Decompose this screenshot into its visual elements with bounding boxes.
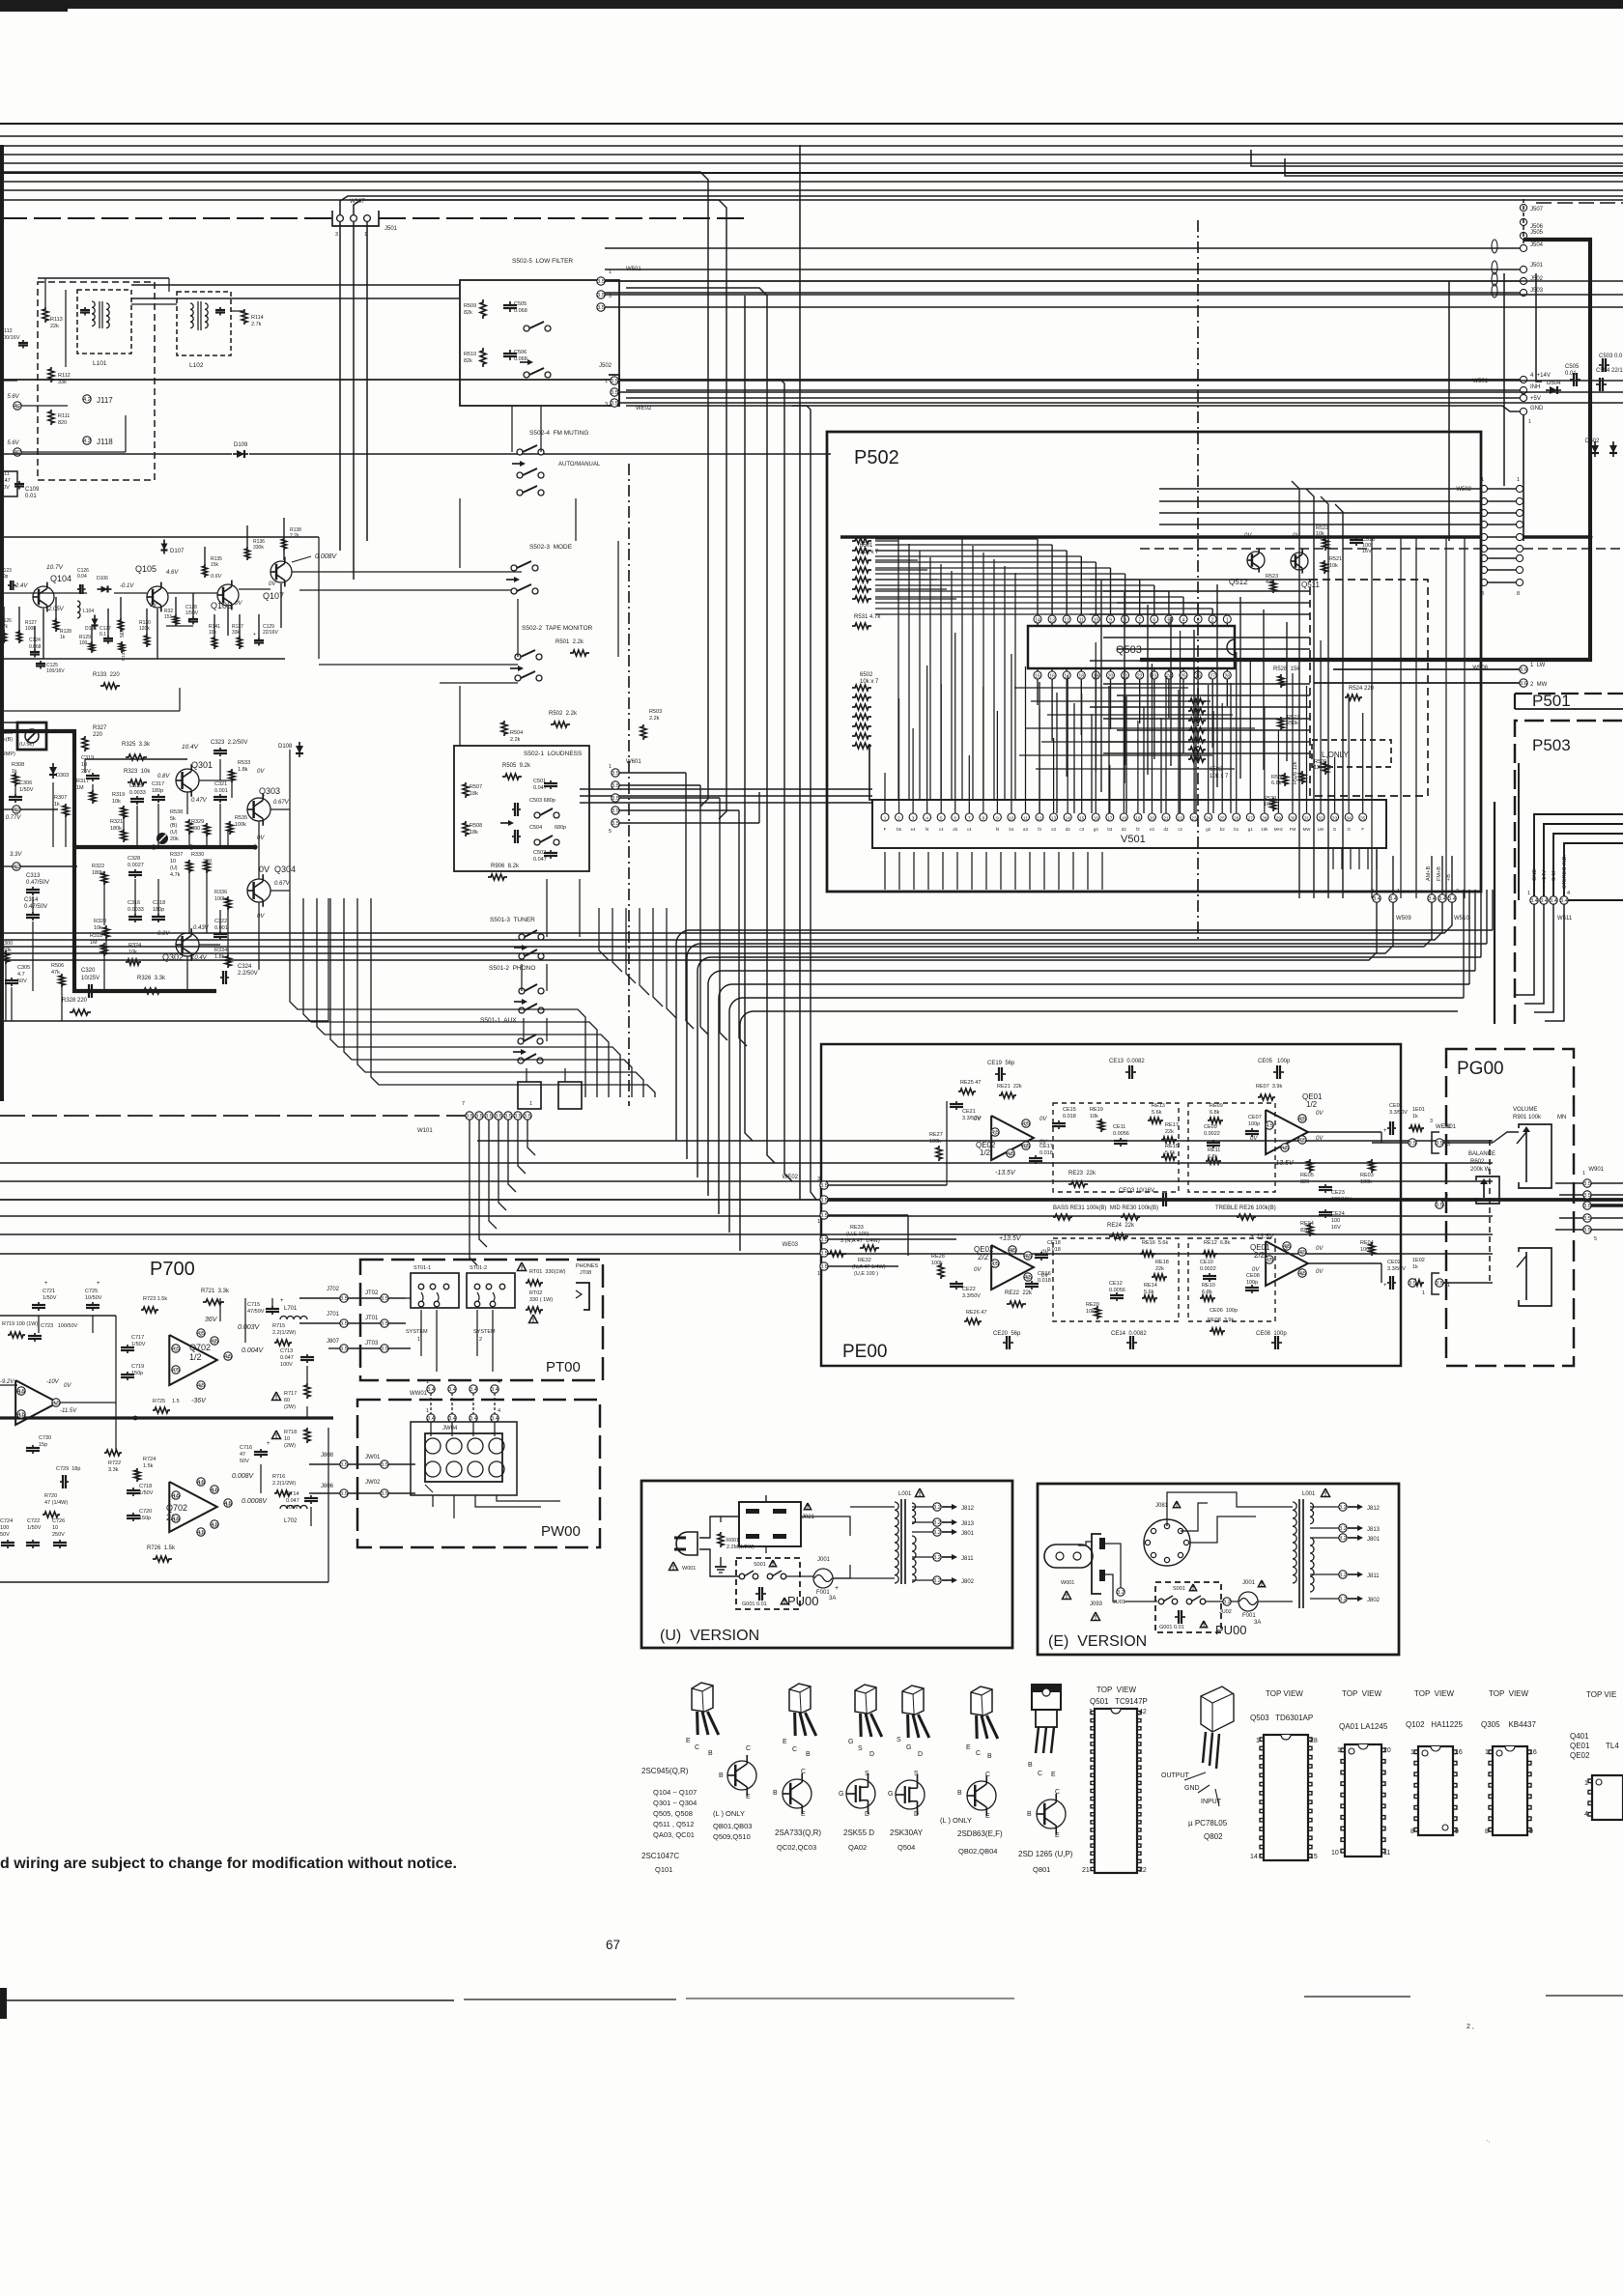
svg-text:10/25V: 10/25V bbox=[81, 976, 100, 981]
svg-text:RE17: RE17 bbox=[1165, 1122, 1179, 1128]
svg-text:2: 2 bbox=[1211, 618, 1214, 624]
svg-text:P502: P502 bbox=[854, 447, 899, 468]
svg-text:0V: 0V bbox=[257, 836, 265, 841]
svg-text:R506: R506 bbox=[51, 963, 64, 969]
svg-text:2: 2 bbox=[1025, 1122, 1028, 1128]
svg-text:180p: 180p bbox=[152, 788, 163, 794]
svg-text:6502: 6502 bbox=[860, 672, 873, 678]
svg-text:C505: C505 bbox=[1565, 364, 1580, 370]
svg-text:+: + bbox=[44, 1281, 48, 1287]
node 6 bbox=[13, 863, 20, 870]
wire P502 bottom exits bbox=[884, 852, 886, 890]
svg-text:R602: R602 bbox=[1470, 1159, 1485, 1165]
switch S502-4c bbox=[517, 490, 523, 496]
wire PG00 dashed center bbox=[1489, 1140, 1491, 1285]
svg-text:-36V: -36V bbox=[191, 1398, 207, 1404]
svg-text:RE15: RE15 bbox=[1165, 1144, 1179, 1149]
svg-text:2.7k: 2.7k bbox=[251, 322, 262, 327]
diode D105 bbox=[94, 615, 96, 630]
svg-text:R325 3.3k: R325 3.3k bbox=[122, 742, 151, 748]
svg-text:3.5: 3.5 bbox=[381, 1491, 388, 1497]
svg-text:E: E bbox=[746, 1794, 751, 1800]
svg-text:3.2: 3.2 bbox=[1117, 1590, 1125, 1596]
svg-text:J811: J811 bbox=[961, 1556, 974, 1562]
svg-text:10.4V: 10.4V bbox=[182, 744, 199, 751]
block PT00 bbox=[360, 1260, 603, 1380]
svg-text:+13.5V: +13.5V bbox=[999, 1235, 1022, 1242]
svg-text:4: 4 bbox=[1567, 891, 1570, 896]
svg-text:100: 100 bbox=[0, 1525, 9, 1531]
svg-text:3.5: 3.5 bbox=[340, 1296, 348, 1302]
svg-text:C726: C726 bbox=[52, 1518, 65, 1524]
svg-text:0V: 0V bbox=[1316, 1136, 1324, 1142]
AC plug W001 U bbox=[676, 1532, 698, 1555]
transistor package 2SK55 TO-92 bbox=[855, 1685, 876, 1714]
svg-text:G: G bbox=[848, 1739, 853, 1745]
svg-text:0V: 0V bbox=[1039, 1117, 1047, 1122]
svg-text:QE01: QE01 bbox=[1570, 1742, 1590, 1750]
wire dashed bus bbox=[0, 217, 332, 219]
svg-text:C: C bbox=[746, 1745, 751, 1752]
svg-text:R11: R11 bbox=[0, 471, 10, 477]
svg-text:2SC945(Q,R): 2SC945(Q,R) bbox=[641, 1767, 689, 1775]
svg-text:21: 21 bbox=[1082, 1867, 1090, 1874]
svg-text:220: 220 bbox=[93, 732, 103, 738]
wire J702 links bbox=[299, 1297, 340, 1299]
svg-text:J801: J801 bbox=[1367, 1537, 1381, 1543]
svg-text:25: 25 bbox=[1220, 816, 1226, 821]
svg-text:3.5: 3.5 bbox=[475, 1114, 483, 1120]
svg-text:1/2: 1/2 bbox=[1306, 1100, 1318, 1109]
svg-text:820: 820 bbox=[1300, 1179, 1309, 1185]
svg-text:3.5: 3.5 bbox=[1409, 1281, 1416, 1287]
svg-text:C504: C504 bbox=[529, 825, 542, 831]
svg-text:AM+B: AM+B bbox=[1426, 866, 1432, 881]
transistor symbol 2SK30A FET bbox=[896, 1780, 925, 1809]
svg-text:JW01: JW01 bbox=[365, 1455, 381, 1460]
svg-text:17: 17 bbox=[1107, 816, 1113, 821]
svg-text:3.4: 3.4 bbox=[1550, 898, 1557, 904]
svg-text:0.47V: 0.47V bbox=[191, 798, 208, 804]
svg-text:RE03: RE03 bbox=[1360, 1173, 1374, 1178]
svg-text:!: ! bbox=[772, 1561, 774, 1568]
connector JU01 bbox=[1117, 1588, 1125, 1596]
wire left vertical bundle bbox=[0, 172, 708, 807]
wire W101 drops bbox=[470, 1120, 477, 1265]
svg-text:V 5.6V: V 5.6V bbox=[0, 440, 20, 446]
svg-text:1: 1 bbox=[1584, 1780, 1588, 1787]
svg-text:RE11: RE11 bbox=[1208, 1148, 1220, 1153]
svg-text:!: ! bbox=[1261, 1581, 1263, 1588]
svg-text:0.001: 0.001 bbox=[214, 788, 228, 794]
svg-text:0.47: 0.47 bbox=[0, 478, 11, 484]
wire thick mid bus bbox=[823, 1198, 1623, 1202]
svg-text:8: 8 bbox=[1485, 1828, 1489, 1835]
switch S502-3a bbox=[511, 565, 517, 571]
svg-text:G: G bbox=[1347, 827, 1351, 832]
svg-text:!: ! bbox=[783, 1599, 785, 1605]
svg-text:250k: 250k bbox=[1287, 721, 1298, 726]
svg-text:W502: W502 bbox=[1456, 487, 1471, 493]
svg-text:RE05: RE05 bbox=[1300, 1173, 1314, 1178]
svg-text:56k: 56k bbox=[120, 629, 126, 638]
svg-text:+: + bbox=[835, 1585, 839, 1592]
svg-text:3.5: 3.5 bbox=[597, 293, 605, 298]
svg-text:J813: J813 bbox=[1367, 1527, 1381, 1533]
svg-text:CE23: CE23 bbox=[1331, 1190, 1345, 1196]
connector J503 bbox=[1520, 289, 1526, 296]
svg-text:P700: P700 bbox=[150, 1259, 195, 1280]
wire W601 feeders bbox=[619, 772, 686, 774]
svg-text:15: 15 bbox=[198, 1481, 204, 1486]
svg-text:!: ! bbox=[521, 1265, 523, 1272]
svg-text:3.5: 3.5 bbox=[1583, 1181, 1591, 1187]
svg-text:25: 25 bbox=[1181, 674, 1186, 680]
svg-text:QB01,QB03: QB01,QB03 bbox=[713, 1822, 752, 1830]
svg-text:3.5: 3.5 bbox=[1436, 1141, 1443, 1147]
svg-text:0.8V: 0.8V bbox=[157, 774, 170, 780]
svg-text:14: 14 bbox=[1066, 816, 1071, 821]
svg-text:4: 4 bbox=[925, 816, 928, 821]
svg-text:3.5: 3.5 bbox=[340, 1462, 348, 1468]
svg-text:7: 7 bbox=[175, 1369, 178, 1375]
svg-text:3.2: 3.2 bbox=[1339, 1526, 1347, 1532]
svg-text:11: 11 bbox=[19, 1413, 24, 1418]
svg-text:13: 13 bbox=[1051, 816, 1057, 821]
svg-text:27: 27 bbox=[1210, 674, 1215, 680]
svg-text:3.5: 3.5 bbox=[1583, 1216, 1591, 1222]
svg-text:Q102 HA11225: Q102 HA11225 bbox=[1406, 1720, 1464, 1729]
dashed feedback box upper bbox=[1053, 1103, 1179, 1192]
svg-text:20: 20 bbox=[1150, 816, 1155, 821]
svg-text:0.67V: 0.67V bbox=[274, 881, 291, 887]
op-amp QE02 2/2 bbox=[991, 1245, 1034, 1290]
svg-text:RT02: RT02 bbox=[529, 1290, 542, 1296]
svg-text:QB02,QB04: QB02,QB04 bbox=[958, 1847, 997, 1856]
svg-text:1: 1 bbox=[1447, 1283, 1450, 1289]
svg-text:RE07 3.9k: RE07 3.9k bbox=[1256, 1084, 1282, 1090]
svg-text:16: 16 bbox=[1049, 674, 1055, 680]
wire top bus step bbox=[1251, 150, 1623, 166]
svg-text:67: 67 bbox=[606, 1938, 620, 1952]
svg-text:8: 8 bbox=[982, 816, 985, 821]
svg-text:R321: R321 bbox=[110, 819, 123, 825]
svg-text:2SK55 D: 2SK55 D bbox=[843, 1828, 874, 1837]
svg-text:J806: J806 bbox=[321, 1484, 334, 1489]
svg-text:(RMP): (RMP) bbox=[0, 751, 15, 757]
svg-text:CE06 100p: CE06 100p bbox=[1210, 1308, 1238, 1314]
svg-text:F: F bbox=[1361, 827, 1364, 832]
svg-text:2SA733(Q,R): 2SA733(Q,R) bbox=[775, 1828, 821, 1837]
svg-text:RE24 22k: RE24 22k bbox=[1107, 1223, 1135, 1229]
svg-text:0.47/50V: 0.47/50V bbox=[24, 904, 47, 910]
switch S502-4a bbox=[517, 449, 523, 455]
switch S502-2b bbox=[515, 675, 521, 681]
svg-text:D106: D106 bbox=[97, 576, 108, 581]
svg-text:R716: R716 bbox=[272, 1474, 285, 1480]
svg-text:-13.5V: -13.5V bbox=[1273, 1160, 1295, 1167]
svg-text:1.5: 1.5 bbox=[172, 1399, 180, 1404]
svg-text:0.0022: 0.0022 bbox=[1200, 1266, 1216, 1272]
svg-text:B: B bbox=[773, 1790, 778, 1797]
svg-text:2SC1047C: 2SC1047C bbox=[641, 1852, 679, 1860]
bottom faint rule bbox=[0, 1999, 454, 2001]
svg-text:3.5: 3.5 bbox=[820, 1237, 828, 1243]
svg-text:33k: 33k bbox=[232, 630, 241, 636]
svg-text:6: 6 bbox=[954, 816, 956, 821]
switch S502-1a bbox=[534, 812, 540, 818]
svg-text:1k: 1k bbox=[54, 802, 60, 808]
svg-text:C315: C315 bbox=[129, 783, 142, 789]
svg-text:WE02: WE02 bbox=[783, 1175, 799, 1180]
svg-text:3A: 3A bbox=[829, 1596, 836, 1602]
switch S001 E dashed box bbox=[1155, 1582, 1221, 1632]
wire P503 divider verticals bbox=[1494, 802, 1495, 1024]
connector J506 bbox=[1520, 218, 1526, 225]
svg-text:10k: 10k bbox=[1329, 563, 1338, 569]
svg-text:L001: L001 bbox=[898, 1491, 912, 1497]
svg-text:12: 12 bbox=[212, 1523, 217, 1528]
svg-text:0V: 0V bbox=[1244, 533, 1252, 539]
svg-text:B: B bbox=[806, 1751, 811, 1758]
svg-text:(E) VERSION: (E) VERSION bbox=[1048, 1633, 1147, 1650]
svg-text:15: 15 bbox=[1310, 1854, 1318, 1860]
svg-text:47/50V: 47/50V bbox=[247, 1309, 265, 1315]
wire PT00 internals bbox=[420, 1310, 422, 1356]
svg-text:R326 3.3k: R326 3.3k bbox=[137, 976, 166, 981]
svg-text:R535: R535 bbox=[235, 815, 247, 821]
svg-text:100: 100 bbox=[1331, 1218, 1340, 1224]
svg-text:PE00: PE00 bbox=[842, 1342, 887, 1362]
svg-text:C319: C319 bbox=[81, 755, 94, 761]
svg-text:2.2(1/2W): 2.2(1/2W) bbox=[272, 1481, 296, 1487]
svg-text:R322: R322 bbox=[92, 864, 104, 869]
transistor package 2SD1265 TO-220 bbox=[1032, 1685, 1061, 1692]
svg-text:G001 0.01: G001 0.01 bbox=[1159, 1625, 1184, 1630]
svg-text:C: C bbox=[695, 1744, 699, 1751]
transistor symbol 2SK55 FET bbox=[846, 1779, 875, 1808]
svg-text:+B: +B bbox=[1446, 874, 1452, 881]
svg-text:Q503 TD6301AP: Q503 TD6301AP bbox=[1250, 1714, 1313, 1722]
connector J504 bbox=[1520, 244, 1526, 251]
svg-text:R330: R330 bbox=[191, 852, 204, 858]
transistor Q106 bbox=[217, 584, 239, 606]
svg-text:RE16 5.6k: RE16 5.6k bbox=[1142, 1240, 1168, 1246]
svg-text:FM: FM bbox=[1290, 827, 1296, 832]
svg-text:W511: W511 bbox=[1557, 916, 1573, 921]
svg-text:C328: C328 bbox=[128, 856, 140, 862]
svg-text:R723 1.5k: R723 1.5k bbox=[143, 1296, 167, 1302]
svg-text:0.8V: 0.8V bbox=[157, 931, 170, 937]
svg-text:16: 16 bbox=[173, 1494, 179, 1499]
switch ST01-2 bbox=[467, 1273, 515, 1308]
wire IF left rails bbox=[21, 399, 83, 406]
ground R001 bbox=[720, 1557, 722, 1567]
svg-text:JT01: JT01 bbox=[365, 1316, 379, 1321]
svg-text:Q504: Q504 bbox=[897, 1843, 915, 1852]
svg-text:!: ! bbox=[672, 1565, 674, 1572]
svg-text:JW04: JW04 bbox=[442, 1426, 458, 1431]
svg-text:L104: L104 bbox=[83, 609, 94, 614]
switch S501-3b bbox=[519, 953, 525, 959]
transistor Q511 bbox=[1291, 553, 1308, 570]
svg-text:R329: R329 bbox=[191, 819, 204, 825]
svg-text:42: 42 bbox=[1139, 1709, 1147, 1715]
svg-text:3.4: 3.4 bbox=[1438, 896, 1446, 902]
svg-text:G001 0.01: G001 0.01 bbox=[742, 1602, 767, 1607]
svg-text:82k: 82k bbox=[464, 310, 472, 316]
svg-text:100/16V: 100/16V bbox=[1331, 1197, 1352, 1203]
display tube V501 bbox=[869, 744, 872, 800]
switch S001 U dashed box bbox=[736, 1558, 800, 1609]
svg-text:0.018: 0.018 bbox=[1038, 1278, 1051, 1284]
svg-text:1.5k: 1.5k bbox=[143, 1463, 154, 1469]
svg-text:3.5: 3.5 bbox=[381, 1296, 388, 1302]
svg-text:0V: 0V bbox=[1316, 1246, 1324, 1252]
svg-text:3.5: 3.5 bbox=[820, 1213, 828, 1219]
svg-text:B: B bbox=[957, 1790, 962, 1797]
svg-text:b3: b3 bbox=[1107, 827, 1112, 832]
svg-text:7: 7 bbox=[1138, 618, 1141, 624]
svg-text:Q301 ~ Q304: Q301 ~ Q304 bbox=[653, 1799, 697, 1807]
svg-text:3.2: 3.2 bbox=[1339, 1597, 1347, 1602]
svg-text:Q509,Q510: Q509,Q510 bbox=[713, 1832, 751, 1841]
block P503 bbox=[1515, 721, 1623, 1024]
capacitor C115 bbox=[219, 307, 221, 310]
svg-text:R719 100 (1W): R719 100 (1W) bbox=[2, 1321, 38, 1327]
svg-text:R722: R722 bbox=[108, 1460, 121, 1466]
svg-text:3.5: 3.5 bbox=[597, 305, 605, 311]
transistor package uPC78L05 bbox=[1201, 1687, 1234, 1732]
svg-text:Q801: Q801 bbox=[1033, 1865, 1050, 1874]
svg-text:22k: 22k bbox=[1155, 1266, 1164, 1272]
svg-text:1M: 1M bbox=[90, 940, 98, 946]
svg-text:J501: J501 bbox=[1530, 263, 1544, 269]
svg-text:TOP VIEW: TOP VIEW bbox=[1266, 1689, 1303, 1698]
svg-text:(2W): (2W) bbox=[284, 1443, 296, 1449]
svg-text:CE15: CE15 bbox=[1063, 1107, 1076, 1113]
svg-text:2.2/50V: 2.2/50V bbox=[238, 971, 258, 977]
svg-text:10k x 7: 10k x 7 bbox=[1210, 774, 1229, 780]
svg-text:AUTO/MANUAL: AUTO/MANUAL bbox=[558, 462, 601, 468]
svg-text:3: 3 bbox=[912, 816, 915, 821]
wire tuner verticals bbox=[3, 607, 5, 639]
svg-text:+14V: +14V bbox=[1542, 870, 1548, 883]
diode D106 bbox=[98, 588, 112, 590]
transistor package 2SC945 TO-92 bbox=[692, 1683, 713, 1712]
svg-text:D: D bbox=[914, 1811, 919, 1818]
svg-text:d2: d2 bbox=[1164, 827, 1169, 832]
svg-text:3.6: 3.6 bbox=[1520, 667, 1527, 673]
connector J505 bbox=[1520, 232, 1526, 239]
svg-text:W509: W509 bbox=[1396, 916, 1411, 921]
svg-text:b2: b2 bbox=[1220, 827, 1225, 832]
svg-text:W510: W510 bbox=[1454, 916, 1469, 921]
svg-text:1/50V: 1/50V bbox=[27, 1525, 42, 1531]
svg-text:CE10: CE10 bbox=[1200, 1260, 1213, 1265]
svg-text:BASS RE31 100k(B) MID RE30 10: BASS RE31 100k(B) MID RE30 100k(B) bbox=[1053, 1205, 1158, 1211]
svg-text:R509: R509 bbox=[464, 303, 476, 309]
svg-text:22/16V: 22/16V bbox=[263, 630, 279, 636]
voltage selector J021 bbox=[739, 1502, 801, 1546]
svg-text:47 (1/4W): 47 (1/4W) bbox=[44, 1500, 68, 1506]
svg-text:0.6V: 0.6V bbox=[211, 574, 223, 580]
svg-text:D108: D108 bbox=[278, 744, 293, 750]
svg-text:6.8k: 6.8k bbox=[1210, 1110, 1220, 1116]
svg-text:1k: 1k bbox=[60, 635, 66, 640]
svg-text:JU02: JU02 bbox=[1219, 1609, 1232, 1615]
svg-text:R336: R336 bbox=[214, 890, 227, 895]
svg-text:4: 4 bbox=[1584, 1811, 1588, 1818]
svg-text:4: 4 bbox=[498, 1408, 500, 1414]
svg-text:C313: C313 bbox=[26, 873, 41, 879]
svg-text:c4: c4 bbox=[939, 827, 944, 832]
svg-text:2SK30AY: 2SK30AY bbox=[890, 1828, 924, 1837]
svg-text:R501 2.2k: R501 2.2k bbox=[555, 639, 584, 645]
svg-text:20k: 20k bbox=[170, 836, 179, 842]
svg-text:1: 1 bbox=[426, 1408, 429, 1414]
svg-text:C716: C716 bbox=[240, 1445, 252, 1451]
svg-text:e4: e4 bbox=[911, 827, 916, 832]
svg-text:5: 5 bbox=[1168, 618, 1171, 624]
wire tuner to mode switches bbox=[292, 571, 522, 573]
svg-text:-13.5V: -13.5V bbox=[995, 1170, 1016, 1176]
svg-text:R521: R521 bbox=[1329, 556, 1342, 562]
svg-text:47: 47 bbox=[240, 1452, 245, 1458]
svg-text:F: F bbox=[884, 827, 887, 832]
svg-text:0.008V: 0.008V bbox=[315, 553, 338, 560]
svg-text:C717: C717 bbox=[131, 1335, 144, 1341]
op-amp QE01 1/2 bbox=[1266, 1110, 1308, 1154]
transistor Q302 bbox=[176, 933, 199, 956]
svg-text:WE02: WE02 bbox=[636, 406, 652, 411]
svg-text:10k: 10k bbox=[112, 799, 121, 805]
svg-text:s3: s3 bbox=[1051, 827, 1056, 832]
wire W509/W510 drop bundle bbox=[0, 902, 1377, 960]
svg-text:1/50V: 1/50V bbox=[139, 1490, 154, 1496]
svg-text:RE27: RE27 bbox=[929, 1132, 943, 1138]
svg-text:2 ,: 2 , bbox=[1466, 2024, 1474, 2030]
svg-text:13: 13 bbox=[1049, 618, 1055, 624]
svg-text:3.4: 3.4 bbox=[1373, 896, 1381, 902]
transistor symbol 2SC945 bbox=[727, 1761, 756, 1790]
svg-text:1: 1 bbox=[605, 379, 608, 384]
svg-text:C719: C719 bbox=[131, 1364, 144, 1370]
left amp op-amp bbox=[15, 1380, 58, 1425]
svg-text:100V: 100V bbox=[280, 1362, 293, 1368]
svg-text:0V: 0V bbox=[269, 581, 276, 587]
svg-text:0.008V: 0.008V bbox=[232, 1473, 255, 1480]
svg-text:10: 10 bbox=[170, 859, 176, 865]
potentiometer RE30 bbox=[1121, 1214, 1140, 1220]
svg-text:15: 15 bbox=[1035, 674, 1040, 680]
svg-text:10: 10 bbox=[284, 1436, 290, 1442]
svg-text:f2: f2 bbox=[1136, 827, 1140, 832]
svg-text:10k: 10k bbox=[209, 630, 217, 636]
svg-text:J702: J702 bbox=[327, 1287, 340, 1292]
svg-text:R307: R307 bbox=[54, 795, 67, 801]
svg-text:3.5: 3.5 bbox=[1583, 1228, 1591, 1233]
svg-text:18: 18 bbox=[1079, 674, 1085, 680]
svg-text:c3: c3 bbox=[1079, 827, 1084, 832]
wire tuner top rail bbox=[0, 536, 319, 538]
svg-text:3.5: 3.5 bbox=[1409, 1141, 1416, 1147]
svg-text:28: 28 bbox=[1225, 674, 1231, 680]
svg-text:28: 28 bbox=[1310, 1738, 1318, 1744]
svg-text:2: 2 bbox=[897, 816, 900, 821]
svg-text:10: 10 bbox=[173, 1517, 179, 1522]
svg-text:180k: 180k bbox=[110, 826, 122, 832]
